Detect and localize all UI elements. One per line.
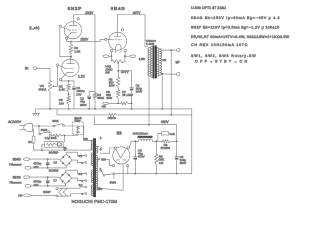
svg-text:1K 1/2W: 1K 1/2W: [122, 93, 133, 97]
wire 350 lower to plate: [100, 164, 123, 190]
triode V1b (6N2P b): [62, 59, 79, 76]
wire rectifier to choke: [129, 141, 135, 147]
wire AC to PT primary: [64, 126, 93, 140]
svg-text:6.3: 6.3: [79, 183, 83, 187]
svg-text:SW1: SW1: [52, 119, 59, 123]
rectifier tube 83: [113, 147, 130, 164]
AC plug: [24, 124, 33, 132]
lug 6B4G filament + (1): [24, 158, 30, 161]
svg-text:C6: C6: [53, 161, 57, 165]
svg-text:6N2P: 6N2P: [43, 190, 51, 194]
svg-text:NL: NL: [63, 146, 67, 150]
wire 152V node: [67, 39, 71, 42]
svg-text:6.3: 6.3: [78, 172, 82, 176]
svg-text:6B4G Eb=250V Ip=60mA Eg=−45V μ: 6B4G Eb=250V Ip=60mA Eg=−45V μ 4.2: [191, 16, 280, 20]
capacitor C3 100u 200V: [118, 71, 131, 88]
tap 0 (HT center): [100, 170, 102, 172]
resistor R4 390K: [93, 93, 96, 99]
svg-text:SW1, SW2, SW3 Rotary-SW: SW1, SW2, SW3 Rotary-SW: [191, 54, 256, 58]
svg-text:AC100V: AC100V: [8, 120, 22, 124]
svg-text:6N2P Eb=110V Ip=0.5mA Eg=−1.2V: 6N2P Eb=110V Ip=0.5mA Eg=−1.2V μ 100±15: [191, 26, 280, 30]
PT primary winding: [91, 140, 93, 150]
svg-text:152V: 152V: [80, 37, 89, 41]
resistor R8 100: [68, 92, 70, 97]
resistor R3 1.8K: [70, 42, 72, 45]
wire NL to AC line: [42, 145, 45, 151]
wire filament to lugs: [111, 52, 113, 61]
svg-text:200V: 200V: [136, 90, 143, 94]
wire OPT primary to B+: [147, 77, 150, 124]
svg-text:HB: HB: [18, 194, 22, 198]
svg-text:1.2V: 1.2V: [78, 74, 86, 78]
wire secondary ground: [161, 74, 163, 109]
svg-text:1W: 1W: [159, 161, 164, 165]
lug A (filament left): [103, 55, 109, 58]
lug HB (heater supply): [24, 194, 31, 197]
lug HB (heater bias): [103, 102, 109, 105]
wire V1a grid to V1b plate (direct coupling): [60, 28, 71, 56]
wire heater bottom: [30, 194, 56, 196]
spark killer box: [72, 122, 83, 134]
wire AC hot: [33, 125, 53, 127]
svg-text:Filament: Filament: [9, 181, 21, 185]
svg-text:100: 100: [59, 101, 64, 105]
svg-text:S1VB20: S1VB20: [49, 151, 59, 155]
wire PSU ground rail: [115, 173, 192, 175]
wire PT primary return: [34, 149, 93, 151]
svg-text:83: 83: [117, 130, 123, 135]
wire input to volume pot: [37, 68, 51, 80]
svg-text:6.3: 6.3: [78, 154, 82, 158]
svg-text:450V: 450V: [180, 161, 187, 165]
wire 152V to 6B4G grid: [71, 39, 105, 41]
svg-text:HB: HB: [102, 105, 106, 109]
wire B+ 420V rail: [95, 116, 177, 141]
neon lamp NL box: [64, 136, 66, 142]
lug 6B4G filament - (2): [25, 185, 31, 188]
wire 407V rail: [116, 15, 118, 37]
ground symbol: [35, 109, 37, 114]
resistor R6 820 10W: [117, 88, 119, 90]
resistor R7 1K 1/2W: [108, 102, 121, 104]
heater 6N2P chevrons: [56, 188, 58, 190]
potentiometer VR 50KA: [48, 81, 51, 92]
svg-text:S1VB20: S1VB20: [49, 169, 59, 173]
resistor R8 47ohm 1W: [156, 140, 162, 142]
wire filament dc - (2): [31, 185, 66, 187]
wire pot wiper to V1b grid: [56, 66, 58, 86]
svg-text:NOGUCHI PMC-170M: NOGUCHI PMC-170M: [72, 199, 118, 204]
connector Rch (to right channel): [156, 140, 158, 142]
wire secondary to SP+: [162, 49, 177, 51]
capacitor C2 47u 350V (decoupling): [89, 92, 95, 96]
capacitor C1 1000u 10V (cathode bypass): [73, 81, 75, 87]
wire bridge ac taps (2): [66, 170, 85, 173]
svg-text:SP: SP: [175, 61, 180, 65]
svg-text:100: 100: [83, 137, 88, 141]
svg-text:SW3: SW3: [110, 180, 117, 184]
PT winding 5V: [96, 146, 98, 153]
svg-text:10W: 10W: [106, 96, 112, 100]
wire AC neutral: [33, 129, 34, 136]
svg-text:600V: 600V: [138, 154, 145, 158]
lug B (filament right): [130, 55, 136, 58]
resistor R2 2.4K (V1b cathode): [60, 80, 62, 82]
svg-text:2.4K: 2.4K: [59, 88, 65, 92]
capacitor C8 40u 600V: [134, 141, 136, 156]
svg-text:47Ω1W: 47Ω1W: [161, 146, 171, 150]
resistor R9 56K 1W (bleeder): [155, 141, 157, 154]
wire 222V rail: [74, 15, 95, 93]
svg-text:CH REX 10H150mA 167Ω: CH REX 10H150mA 167Ω: [191, 43, 248, 47]
svg-text:2W: 2W: [105, 70, 110, 74]
terminal SP+: [177, 49, 180, 52]
svg-text:350: 350: [97, 187, 102, 191]
transformer PT core: [94, 139, 95, 197]
wire NFB from secondary: [170, 50, 172, 115]
wire R7 to ground: [131, 103, 133, 109]
svg-text:10W: 10W: [109, 84, 115, 88]
PT winding 6.3V b: [91, 170, 93, 183]
svg-text:16V: 16V: [33, 183, 38, 187]
svg-text:2.5K: 2.5K: [139, 57, 145, 61]
wire filament dc - (1): [31, 167, 66, 169]
resistor RNFB (feedback): [57, 109, 109, 115]
svg-text:(L,ch): (L,ch): [29, 25, 40, 30]
wire secondary to SP-: [162, 73, 177, 75]
triode V1a (6N2P a): [64, 22, 81, 39]
capacitor C9 100u 450V: [176, 141, 178, 156]
svg-text:220K: 220K: [51, 136, 57, 140]
svg-text:6B4G: 6B4G: [13, 157, 22, 161]
svg-text:Rch: Rch: [170, 132, 176, 136]
wire cathode 157V: [117, 66, 119, 78]
switch SW3: [102, 171, 104, 174]
svg-text:U-808 OPT1 3T 213Ω: U-808 OPT1 3T 213Ω: [191, 6, 226, 10]
svg-text:C7: C7: [53, 179, 57, 183]
wire bridge ac taps (1): [66, 152, 85, 155]
hum pot VR2 100ohm: [112, 60, 125, 63]
tap 350 lower: [98, 187, 100, 189]
svg-text:420V: 420V: [161, 120, 170, 124]
svg-text:RNFB: RNFB: [108, 116, 116, 120]
power tube 6B4G: [105, 38, 107, 40]
lug 6B4G filament + (2): [24, 176, 30, 179]
wire 350 upper to plate: [100, 159, 112, 166]
svg-text:6N2P: 6N2P: [68, 6, 82, 11]
wire 5V to rectifier: [100, 148, 114, 153]
svg-text:R5,R6,R7 60mA×157V=9.4W, 820Ω1: R5,R6,R7 60mA×157V=9.4W, 820Ω10W×2+1KΩ0.…: [191, 35, 290, 39]
svg-text:10H150mA: 10H150mA: [133, 132, 149, 136]
svg-text:350V: 350V: [80, 103, 87, 107]
svg-text:390K: 390K: [97, 96, 104, 100]
svg-text:6B4G: 6B4G: [13, 175, 22, 179]
svg-text:50KA: 50KA: [39, 87, 48, 91]
lug 6B4G filament - (1): [25, 167, 31, 170]
capacitor C6 4700u 16V: [47, 159, 49, 162]
capacitor C7 4700u 16V: [47, 177, 49, 180]
resistor R5 820 10W: [117, 77, 120, 87]
wire filament dc + (2): [30, 177, 61, 178]
PT winding HT 350-0-350: [96, 156, 98, 191]
svg-text:16V: 16V: [33, 165, 38, 169]
svg-text:1.8K: 1.8K: [74, 49, 80, 53]
svg-text:Filament: Filament: [9, 163, 21, 167]
svg-text:IN: IN: [25, 67, 29, 71]
svg-text:SW2: SW2: [41, 128, 48, 132]
wire filament dc + (1): [30, 159, 61, 160]
wire heater top: [58, 187, 85, 188]
svg-text:6B4G: 6B4G: [111, 6, 126, 11]
PT winding 6.3V a: [91, 153, 93, 166]
wire choke output: [152, 140, 156, 142]
svg-text:OFF→STBY→ON: OFF→STBY→ON: [195, 60, 249, 64]
ground bus: [36, 109, 192, 174]
PT winding 6.3V c: [91, 185, 93, 196]
terminal SP-: [177, 73, 180, 76]
